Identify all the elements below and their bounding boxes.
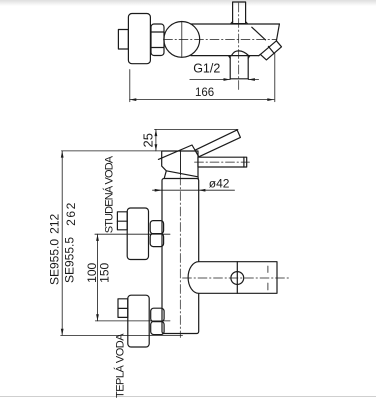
svg-text:TEPLÁ VODA: TEPLÁ VODA: [113, 333, 126, 398]
wall flange: [128, 14, 150, 64]
svg-text:262: 262: [64, 201, 78, 226]
vertical centerline outlet: [238, 3, 240, 90]
svg-text:150: 150: [98, 262, 112, 282]
svg-text:SE955.5: SE955.5: [62, 237, 76, 283]
G1/2 outlet stub: [229, 56, 250, 79]
cold water nut: [150, 221, 163, 247]
bracket hidden line: [267, 266, 269, 290]
dimension ø42: [153, 189, 235, 192]
cold inlet centerline: [95, 233, 170, 235]
hot inlet centerline: [95, 320, 170, 322]
spout (front view bar): [198, 157, 247, 167]
svg-text:212: 212: [48, 213, 62, 233]
column centerline: [179, 176, 181, 338]
svg-text:25: 25: [140, 133, 155, 147]
ball joint circle: [164, 22, 200, 58]
cold water escutcheon: [127, 208, 148, 260]
shower bracket: [188, 262, 277, 294]
bracket centerline: [183, 277, 291, 279]
tilted cap lines: [158, 145, 195, 159]
dimension 212/262: [61, 151, 64, 336]
spout bar centerline: [195, 161, 250, 163]
cold water pipe stub: [117, 212, 127, 230]
ball vertical centerline: [181, 22, 183, 58]
lever handle: [195, 130, 240, 157]
top stub (cartridge connection): [231, 2, 247, 24]
miter seam line: [252, 27, 266, 40]
reference line top (212/262 datum): [61, 150, 162, 152]
dimension 166: [130, 53, 275, 101]
svg-text:166: 166: [195, 87, 214, 99]
bracket hole: [231, 272, 244, 285]
cartridge head: [162, 151, 198, 177]
dimension G1/2: [190, 78, 259, 81]
svg-text:SE955.0: SE955.0: [48, 239, 62, 285]
horizontal centerline (top view): [164, 38, 277, 40]
extension line lever top (25): [155, 128, 239, 130]
svg-text:100: 100: [85, 262, 99, 282]
bracket hole line: [236, 262, 238, 294]
body column: [162, 179, 199, 334]
dimension 100/150: [96, 234, 99, 321]
dimension 25: [155, 129, 158, 151]
bottom reference line: [61, 334, 183, 336]
spout end (rotated square): [260, 41, 281, 60]
mixer body (top view): [191, 24, 280, 56]
wall pipe stub: [118, 30, 128, 50]
hot water nut: [151, 308, 164, 334]
hot water pipe stub: [118, 299, 128, 318]
head seam: [180, 151, 182, 175]
svg-text:STUDENÁ VODA: STUDENÁ VODA: [102, 155, 115, 233]
hex nut (top view): [151, 24, 164, 56]
svg-text:ø42: ø42: [209, 177, 230, 191]
hot water escutcheon: [128, 295, 149, 347]
neck links: [164, 171, 166, 179]
svg-text:G1/2: G1/2: [193, 62, 220, 76]
outlet boss hump: [232, 51, 249, 56]
